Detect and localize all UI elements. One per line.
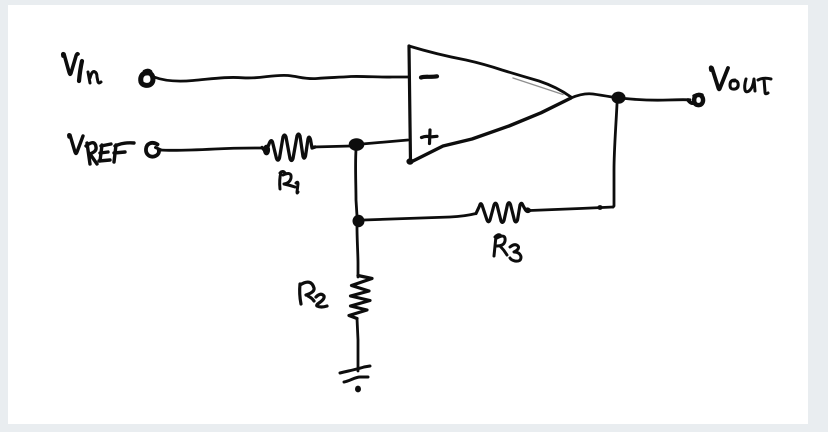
label R3	[494, 235, 521, 261]
wire R1 to node A	[313, 146, 351, 147]
wire node B down to R2	[357, 227, 358, 277]
node B junction dot	[353, 215, 365, 227]
wire Vin to op-amp inverting input	[154, 75, 408, 81]
label R2	[300, 282, 327, 307]
wire node C to Vout terminal	[625, 99, 690, 101]
wire node A to op-amp non-inverting input	[362, 140, 408, 144]
wire VREF to R1	[160, 148, 262, 150]
op-amp	[406, 46, 571, 165]
resistor R2	[349, 276, 372, 319]
node C output junction dot	[612, 92, 626, 104]
terminal VREF	[146, 143, 159, 157]
terminal Vin	[141, 73, 153, 86]
wire output node down to feedback corner	[613, 104, 617, 207]
wire node B to R3	[364, 214, 476, 221]
wire R3 to output branch corner	[530, 207, 613, 211]
wire op-amp output to node C	[571, 94, 612, 98]
node Vout label	[711, 67, 771, 93]
op-amp inverting input '-'	[421, 76, 437, 77]
wire node A down to node B	[356, 150, 357, 216]
resistor R3	[476, 203, 530, 223]
node Vin label	[63, 54, 101, 83]
wire R2 to ground	[357, 319, 358, 372]
label R1	[280, 172, 298, 194]
node A junction dot	[349, 138, 365, 151]
node VREF label	[69, 135, 134, 164]
resistor R1	[262, 134, 315, 161]
terminal Vout	[694, 95, 703, 105]
ground	[340, 366, 370, 392]
op-amp non-inverting input '+'	[422, 130, 438, 144]
